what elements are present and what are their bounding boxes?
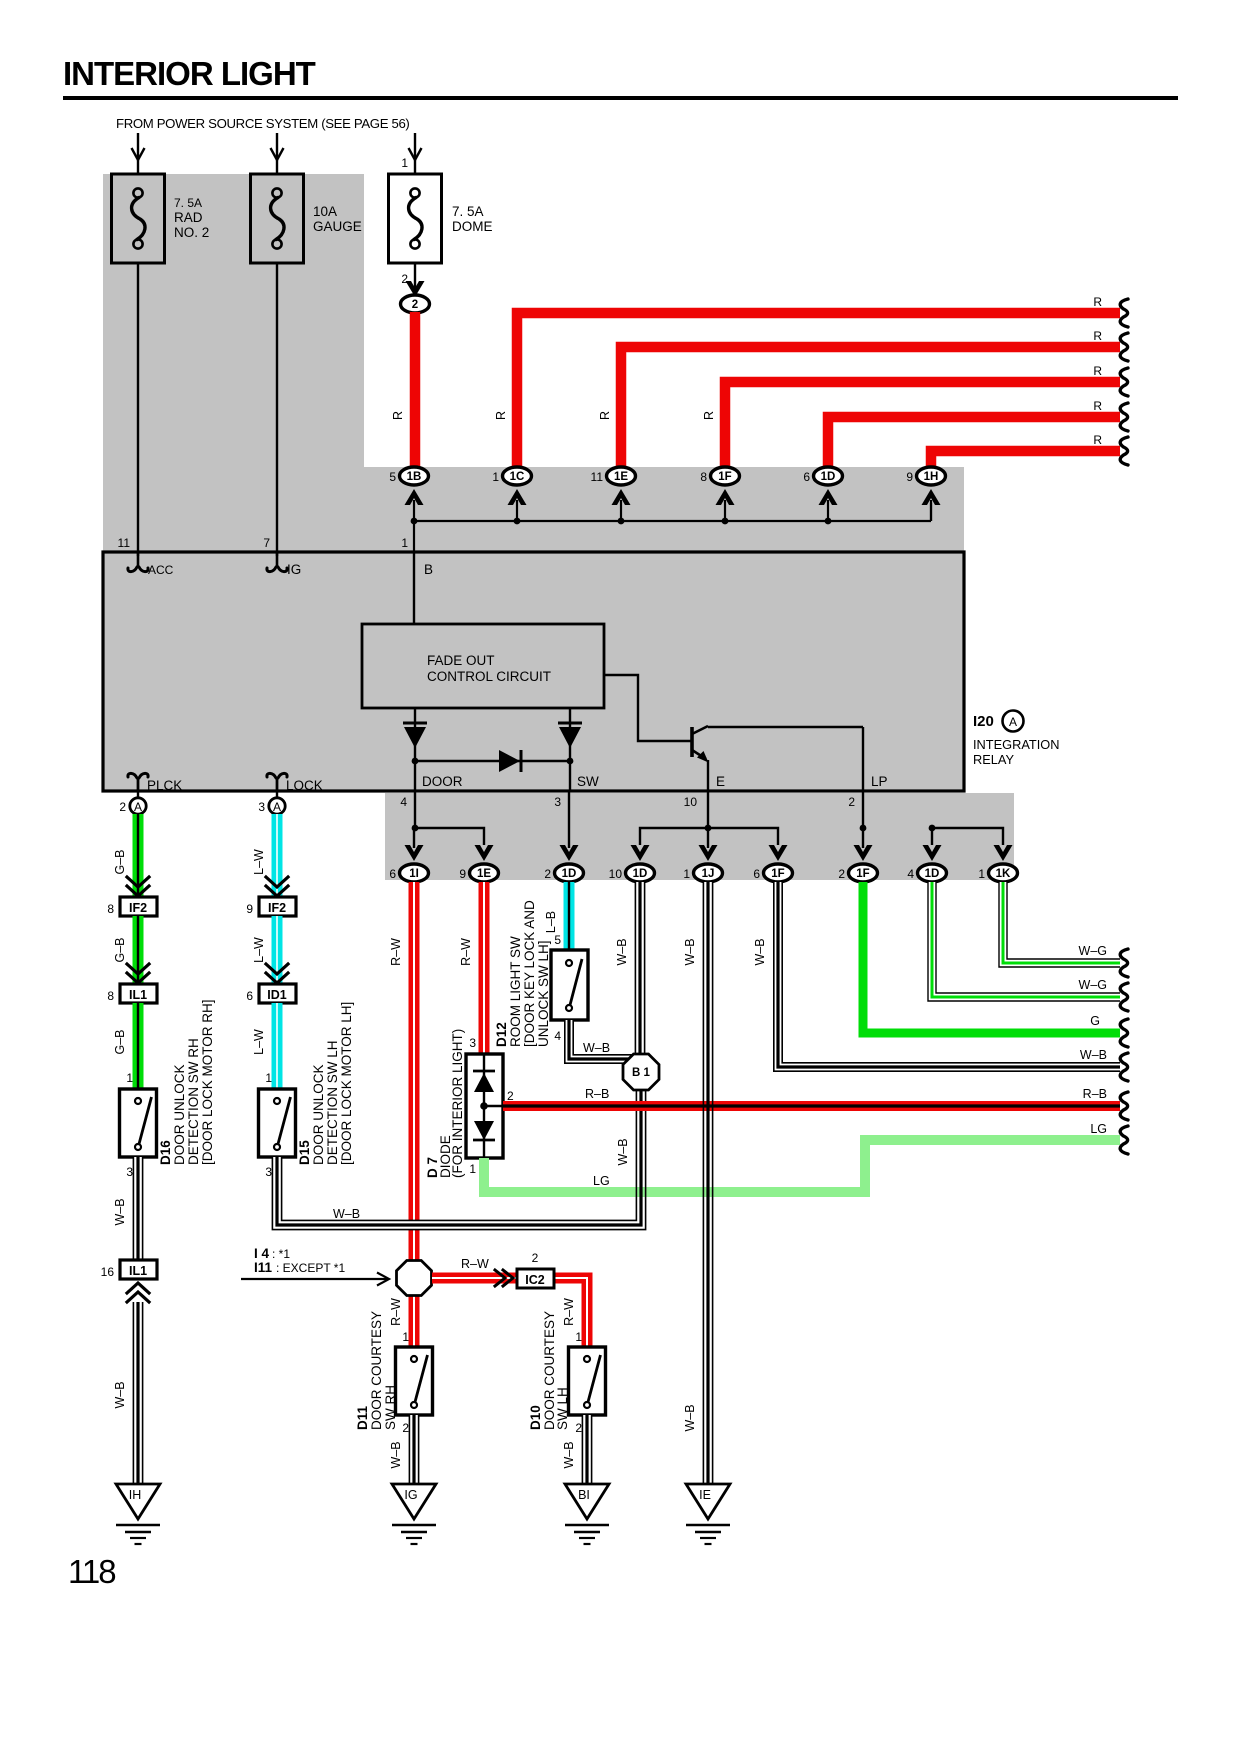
svg-text:3: 3 [469,1036,476,1050]
chevron into IL1 [127,973,149,983]
bus junction [825,518,832,525]
arrow into 1C [508,489,527,505]
wire W-B D16 to IL1-16 [133,1157,143,1260]
wire fade box to transistor base [604,675,691,741]
connector 1E pin 11 [607,467,636,485]
junction connector B1 [623,1054,659,1090]
power feed arrow [276,133,278,174]
svg-text:[DOOR KEY LOCK AND: [DOOR KEY LOCK AND [522,900,537,1047]
connector 1E pin 9 [470,864,499,882]
svg-text:D15: D15 [297,1140,312,1165]
connector 1D pin 10 [626,864,655,882]
svg-text:G–B: G–B [113,1029,127,1054]
svg-text:W–B: W–B [333,1207,360,1221]
red wire R from connector 2 to 1B [410,312,421,469]
svg-text:ID1: ID1 [267,988,287,1002]
svg-text:LOCK: LOCK [286,778,323,793]
svg-text:W–B: W–B [583,1041,610,1055]
wire R-W 1E to diode D7 [479,882,490,1056]
svg-text:1H: 1H [924,471,939,483]
svg-text:1J: 1J [702,868,715,880]
svg-text:D11: D11 [355,1405,370,1430]
svg-text:W–B: W–B [615,938,629,965]
svg-text:1: 1 [469,1162,476,1176]
svg-text:CONTROL CIRCUIT: CONTROL CIRCUIT [427,669,551,684]
svg-text:2: 2 [848,795,855,809]
gray strip behind connector row 1B-1H [103,467,964,555]
connector 1D pin 4 [918,864,947,882]
svg-text:[DOOR LOCK MOTOR LH]: [DOOR LOCK MOTOR LH] [339,1002,354,1165]
svg-text:A: A [134,800,142,814]
wire continuation squiggle [1120,403,1128,431]
gray background block behind fuses [103,174,364,467]
bus junction [722,518,729,525]
arrow into 1E [612,489,631,505]
svg-text:11: 11 [118,536,131,550]
chevron into ID1 [266,973,288,983]
svg-text:1D: 1D [633,868,648,880]
relay pin LOCK [276,777,279,791]
svg-text:I20: I20 [973,713,994,730]
wire L-W IF2 to ID1 [272,916,283,983]
arrow into row-2 connector [923,845,942,861]
wire SW pin down [569,761,571,791]
squiggle LG [1120,1126,1128,1154]
junction connector IL1 pin 16 [120,1260,157,1279]
wire L-W from pin A to IF2 [272,814,283,896]
svg-text:W–B: W–B [1080,1048,1107,1062]
ground IH [116,1484,160,1519]
svg-text:SW LH: SW LH [555,1387,570,1430]
svg-text:R: R [1093,433,1102,447]
svg-text:2: 2 [575,1421,582,1435]
wire W-B D10 to ground BI [582,1415,592,1483]
svg-text:DOOR UNLOCK: DOOR UNLOCK [172,1064,187,1165]
svg-text:W–B: W–B [683,1404,697,1431]
svg-text:R–W: R–W [389,1298,403,1326]
bus junction [411,518,418,525]
junction connector IF2 pin 9 [259,897,296,916]
bus junction [618,518,625,525]
svg-text:R: R [1093,399,1102,413]
svg-text:[DOOR LOCK MOTOR RH]: [DOOR LOCK MOTOR RH] [200,999,215,1165]
wire W-B D15 to junction B1 underlay [277,1090,641,1225]
svg-text:1: 1 [683,867,690,881]
svg-text:W–G: W–G [1079,978,1107,992]
wire W-B 1J black lines over [702,882,704,1483]
svg-text:R–W: R–W [562,1298,576,1326]
svg-text:2: 2 [402,1421,409,1435]
svg-text:1: 1 [492,470,499,484]
svg-text:R: R [1093,329,1102,343]
wire W-G 1D to right edge [932,882,1120,997]
svg-text:: *1: : *1 [272,1247,290,1261]
svg-text:1E: 1E [614,471,628,483]
svg-text:LG: LG [593,1174,610,1188]
svg-text:W–B: W–B [113,1381,127,1408]
wire fuse RAD to relay ACC [137,263,139,556]
chevron into IF2 LH [266,886,288,896]
svg-text:R: R [391,411,405,420]
svg-text:1D: 1D [925,868,940,880]
svg-text:W–B: W–B [616,1138,630,1165]
red wire R riser 1H [931,451,1120,469]
svg-text:GAUGE: GAUGE [313,219,362,234]
svg-text:RAD: RAD [174,210,203,225]
wire DOOR to SW with middle diode [415,760,570,762]
red wire R riser 1E [621,347,1120,469]
svg-text:2: 2 [838,867,845,881]
switch D15 door unlock detection SW LH [259,1089,296,1157]
svg-text:NO. 2: NO. 2 [174,225,209,240]
svg-text:B: B [424,562,433,577]
svg-text:IC2: IC2 [525,1273,545,1287]
fuse 7.5A DOME [389,174,442,263]
svg-text:R: R [1093,364,1102,378]
red wire R riser 1D [828,417,1120,469]
svg-text:5: 5 [389,470,396,484]
chevrons into IC2 [503,1270,513,1286]
svg-text:5: 5 [554,933,561,947]
wire collector to pin LP [862,727,864,791]
svg-text:DOOR: DOOR [422,774,463,789]
svg-text:W–B: W–B [753,938,767,965]
red wire R riser 1C [517,313,1120,469]
arrow into 1D [819,489,838,505]
squiggle W-G upper [1120,949,1128,977]
wire W-B IL1 to ground IH [133,1302,143,1483]
wire continuation squiggle [1120,437,1128,465]
ground IE [686,1484,730,1519]
svg-text:2: 2 [532,1251,539,1265]
svg-text:IF2: IF2 [129,901,147,915]
svg-text:R–W: R–W [461,1257,489,1271]
svg-text:: EXCEPT *1: : EXCEPT *1 [276,1261,345,1275]
switch D11 door courtesy SW RH [396,1347,433,1415]
svg-text:2: 2 [507,1089,514,1103]
squiggle W-B [1120,1053,1128,1081]
svg-text:PLCK: PLCK [147,778,182,793]
gray strip behind connector row 1I-1K [385,793,1014,880]
svg-text:7. 5A: 7. 5A [174,196,202,210]
wire continuation squiggle [1120,299,1128,327]
svg-text:L–W: L–W [252,849,266,875]
svg-text:IF2: IF2 [268,901,286,915]
svg-text:1: 1 [575,1330,582,1344]
svg-text:118: 118 [68,1553,115,1590]
wire W-B D11 to ground IG [409,1415,419,1483]
svg-text:IL1: IL1 [129,1264,147,1278]
fuse 7.5A RAD NO.2 [112,174,165,263]
squiggle G [1120,1019,1128,1047]
svg-text:1D: 1D [821,471,836,483]
diode SW inside relay [569,708,571,761]
connector 1F pin 6 [764,864,793,882]
svg-text:L–W: L–W [252,937,266,963]
connector 1I pin 6 [400,864,429,882]
svg-text:SW RH: SW RH [383,1385,398,1430]
relay pin PLCK [137,777,140,791]
svg-text:8: 8 [107,902,114,916]
svg-text:1: 1 [265,1071,272,1085]
connector 1D pin 2 [555,864,584,882]
wire DOOR pin down [414,761,416,791]
chevron below IL1 [127,1283,149,1293]
switch D10 door courtesy SW LH [569,1347,606,1415]
svg-text:R–W: R–W [459,938,473,966]
wire L-W ID1 to D15 [272,1003,283,1089]
svg-text:L–B: L–B [544,911,558,933]
svg-text:IG: IG [404,1488,417,1502]
connector 1F pin 2 [849,864,878,882]
svg-text:7: 7 [263,536,270,550]
svg-text:R: R [1093,295,1102,309]
relay pin IG [276,553,279,568]
svg-text:1F: 1F [771,868,784,880]
junction connector IF2 pin 8 [120,897,157,916]
arrow into row-2 connector [994,845,1013,861]
svg-text:UNLOCK SW LH]: UNLOCK SW LH] [536,940,551,1047]
svg-text:R: R [598,411,612,420]
svg-text:1: 1 [978,867,985,881]
connector oval 2 [401,295,430,313]
svg-text:I 4: I 4 [254,1246,270,1261]
svg-text:L–W: L–W [252,1029,266,1055]
svg-text:DOOR UNLOCK: DOOR UNLOCK [311,1064,326,1165]
svg-text:1I: 1I [409,868,419,880]
svg-text:W–B: W–B [113,1198,127,1225]
svg-text:1F: 1F [856,868,869,880]
svg-text:W–B: W–B [562,1441,576,1468]
bus wire joining row-1 connectors [414,520,931,522]
svg-text:FADE OUT: FADE OUT [427,653,495,668]
junction connector ID1 pin 6 [259,984,296,1003]
connector 1J pin 1 [694,864,723,882]
svg-text:1: 1 [401,536,408,550]
fade out control circuit box [362,624,604,708]
svg-text:IE: IE [699,1488,711,1502]
svg-text:DOME: DOME [452,219,493,234]
svg-text:6: 6 [753,867,760,881]
diode D7 for interior light [466,1054,503,1158]
svg-text:BI: BI [578,1488,590,1502]
wire W-B 1J white underlay [703,882,713,1483]
svg-text:LP: LP [871,774,888,789]
connector 1K pin 1 [989,864,1018,882]
svg-text:4: 4 [400,795,407,809]
svg-text:9: 9 [906,470,913,484]
transistor inside relay [690,727,694,757]
red wire R riser 1F [725,382,1120,469]
squiggle R-B [1120,1092,1128,1120]
svg-text:6: 6 [246,989,253,1003]
svg-text:10A: 10A [313,204,337,219]
svg-text:1C: 1C [510,471,525,483]
svg-text:D12: D12 [494,1022,509,1047]
svg-text:E: E [716,774,725,789]
relay pin ACC [137,553,140,568]
svg-text:B 1: B 1 [632,1067,651,1079]
svg-text:G: G [1090,1014,1100,1028]
svg-text:INTERIOR LIGHT: INTERIOR LIGHT [63,55,316,92]
wire bus to relay pin B [413,521,415,552]
wire G-B IF2 to IL1 [133,916,144,983]
arrow into 1H [922,489,941,505]
svg-text:10: 10 [684,795,698,809]
wire emitter to pin E [707,760,709,791]
svg-text:R: R [494,411,508,420]
svg-text:W–B: W–B [683,938,697,965]
wire W-G 1K to right edge [1003,882,1120,963]
svg-text:1E: 1E [477,868,491,880]
svg-text:3: 3 [258,800,265,814]
wire G 1F to right edge [863,882,1120,1033]
wire fuse DOME pin2 to connector 2 [414,263,416,296]
svg-text:W–B: W–B [389,1441,403,1468]
switch D12 room light SW [551,950,588,1020]
svg-text:D16: D16 [158,1140,173,1165]
svg-text:1B: 1B [407,471,422,483]
svg-text:2: 2 [412,299,418,311]
fuse 10A GAUGE [251,174,304,263]
wire R-W junction to IC2 and D10 [432,1273,517,1284]
svg-text:3: 3 [554,795,561,809]
arrow into row-2 connector [699,845,718,861]
svg-text:9: 9 [459,867,466,881]
svg-text:8: 8 [700,470,707,484]
svg-text:4: 4 [907,867,914,881]
svg-text:1: 1 [402,1330,409,1344]
wire W-B 1F to right edge [778,882,1120,1067]
wire R-W 1I to junction I4/I11 and D11 [409,882,420,1347]
ground IG [392,1484,436,1519]
wire L-B 1D to D12 [564,882,575,950]
arrow into connector 2 [406,281,425,297]
relay pin B [413,552,415,624]
svg-text:G–B: G–B [113,937,127,962]
svg-text:A: A [1009,715,1017,729]
svg-text:I11: I11 [254,1260,273,1275]
arrow into row-2 connector [405,845,424,861]
power feed arrow [137,133,139,174]
svg-text:1K: 1K [996,868,1011,880]
connector 1H pin 9 [917,467,946,485]
svg-text:A: A [273,800,281,814]
arrow into 1B [405,489,424,505]
svg-text:6: 6 [389,867,396,881]
title rule [63,96,1178,100]
svg-text:1: 1 [126,1071,133,1085]
switch D16 door unlock detection SW RH [120,1089,157,1157]
wire R-B from D7 to right edge [503,1101,1120,1111]
svg-text:IG: IG [287,562,301,577]
wire W-B D12 to B1 [569,1020,633,1059]
svg-text:9: 9 [246,902,253,916]
svg-text:SW: SW [577,774,599,789]
svg-text:16: 16 [101,1265,115,1279]
svg-text:LG: LG [1090,1122,1107,1136]
connector 1F pin 8 [711,467,740,485]
arrow to junction [241,1278,388,1280]
chevron into IF2 [127,886,149,896]
junction connector I4/I11 octagon [397,1261,432,1296]
svg-text:7. 5A: 7. 5A [452,204,484,219]
svg-text:(FOR INTERIOR LIGHT): (FOR INTERIOR LIGHT) [450,1029,465,1178]
svg-text:2: 2 [119,800,126,814]
arrow into 1F [716,489,735,505]
svg-text:1: 1 [401,156,408,170]
svg-text:FROM POWER SOURCE SYSTEM (SEE: FROM POWER SOURCE SYSTEM (SEE PAGE 56) [116,116,409,131]
svg-text:D10: D10 [528,1405,543,1430]
wire W-B 1D to B1 [635,882,645,1056]
connector 1B pin 5 [400,467,429,485]
svg-text:DETECTION SW RH: DETECTION SW RH [186,1038,201,1165]
svg-text:6: 6 [803,470,810,484]
integration relay outline box [103,552,964,791]
svg-text:DETECTION SW LH: DETECTION SW LH [325,1040,340,1165]
svg-text:4: 4 [554,1029,561,1043]
svg-text:3: 3 [265,1165,272,1179]
wire fuse GAUGE to relay IG [276,263,278,556]
svg-text:R–B: R–B [1083,1087,1107,1101]
bus junction [514,518,521,525]
diode DOOR inside relay [414,708,416,761]
arrow into row-2 connector [560,845,579,861]
ground BI [565,1484,609,1519]
svg-text:1F: 1F [718,471,731,483]
svg-text:3: 3 [126,1165,133,1179]
connector 1D pin 6 [814,467,843,485]
arrow into row-2 connector [475,845,494,861]
wire G-B IL1 to D16 [133,1003,144,1089]
svg-text:DOOR COURTESY: DOOR COURTESY [369,1311,384,1430]
svg-text:ACC: ACC [148,563,174,577]
wire G-B from pin A to IF2 [133,814,144,896]
svg-text:W–G: W–G [1079,944,1107,958]
arrow into row-2 connector [854,845,873,861]
arrow into row-2 connector [631,845,650,861]
svg-text:2: 2 [544,867,551,881]
junction connector IL1 pin 8 [120,984,157,1003]
wire continuation squiggle [1120,368,1128,396]
svg-text:IH: IH [129,1488,142,1502]
svg-text:INTEGRATION: INTEGRATION [973,737,1060,752]
svg-text:R: R [702,411,716,420]
svg-text:R–W: R–W [389,938,403,966]
squiggle W-G lower [1120,983,1128,1011]
svg-text:RELAY: RELAY [973,752,1014,767]
svg-text:IL1: IL1 [129,988,147,1002]
svg-text:8: 8 [107,989,114,1003]
svg-text:10: 10 [609,867,623,881]
svg-text:ROOM LIGHT SW: ROOM LIGHT SW [508,936,523,1047]
junction connector IC2 pin 2 [517,1269,554,1288]
wire LG from D7 to right edge [484,1140,1120,1192]
svg-text:R–B: R–B [585,1087,609,1101]
arrow into row-2 connector [769,845,788,861]
svg-text:G–B: G–B [113,849,127,874]
connector 1C pin 1 [503,467,532,485]
wire W-B D15 to junction B1 lines [272,1090,645,1230]
power feed arrow [414,133,416,174]
svg-text:1D: 1D [562,868,577,880]
svg-text:11: 11 [591,470,604,484]
wire continuation squiggle [1120,333,1128,361]
